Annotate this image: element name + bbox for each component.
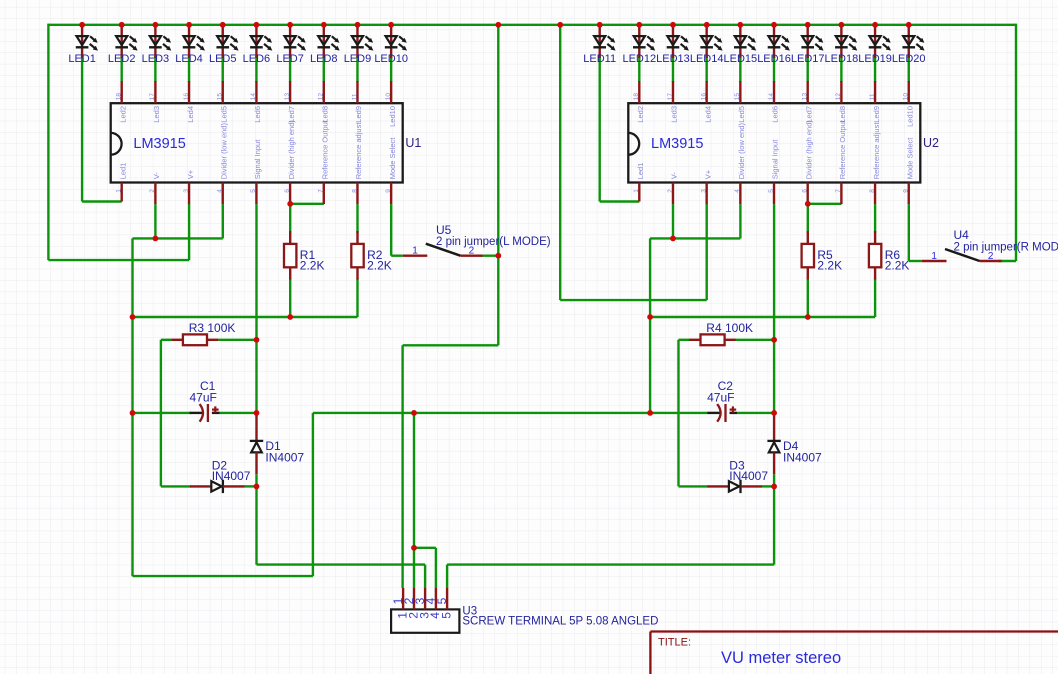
wire terminal pin3 drop: [424, 565, 426, 588]
svg-text:Led1: Led1: [636, 163, 645, 180]
svg-text:LED4: LED4: [175, 53, 203, 65]
svg-text:16: 16: [183, 93, 190, 101]
svg-text:Led10: Led10: [388, 106, 397, 127]
svg-text:LED6: LED6: [243, 53, 271, 65]
svg-text:LED17: LED17: [791, 53, 825, 65]
op-amp/IC U2 LM3915: [628, 81, 939, 204]
svg-text:5: 5: [250, 189, 257, 193]
wire terminal pin4 branch: [414, 547, 436, 549]
wire R5 leads: [807, 204, 809, 233]
svg-text:V+: V+: [703, 169, 712, 179]
LED LED7: [276, 25, 306, 65]
svg-text:12: 12: [835, 93, 842, 101]
wire R2 leads: [356, 204, 358, 233]
LED LED10: [374, 25, 408, 65]
diode D1 IN4007: [250, 414, 305, 474]
svg-text:Divider (high end): Divider (high end): [804, 120, 813, 180]
svg-text:LM3915: LM3915: [133, 136, 185, 152]
wire C2 row right lead: [737, 412, 774, 414]
svg-text:LED7: LED7: [276, 53, 304, 65]
svg-text:Led2: Led2: [636, 106, 645, 123]
svg-text:LED16: LED16: [757, 53, 791, 65]
svg-text:Led4: Led4: [186, 106, 195, 123]
svg-text:1: 1: [116, 189, 123, 193]
svg-text:U4: U4: [954, 228, 970, 242]
LED LED8: [310, 25, 340, 65]
capacitor C1 47uF: [190, 379, 220, 422]
svg-text:LED8: LED8: [310, 53, 338, 65]
capacitor C2 47uF: [707, 379, 737, 422]
diode D2 IN4007: [190, 459, 251, 494]
wire R1 leads: [289, 204, 291, 233]
resistor R2: [351, 231, 391, 280]
svg-text:VU meter stereo: VU meter stereo: [721, 649, 841, 667]
svg-text:IN4007: IN4007: [729, 469, 768, 483]
svg-text:LED20: LED20: [892, 53, 926, 65]
svg-text:LED9: LED9: [344, 53, 372, 65]
diode D4 IN4007: [767, 414, 822, 474]
op-amp/IC U1 LM3915: [111, 81, 422, 204]
svg-text:LED11: LED11: [583, 53, 616, 65]
svg-text:11: 11: [351, 93, 358, 100]
LED LED4: [175, 25, 205, 65]
svg-text:LED19: LED19: [858, 53, 892, 65]
svg-text:U1: U1: [405, 136, 421, 150]
svg-text:V-: V-: [670, 172, 679, 180]
svg-text:IN4007: IN4007: [212, 469, 251, 483]
svg-text:11: 11: [869, 93, 876, 100]
svg-text:Led5: Led5: [219, 106, 228, 123]
svg-text:R4 100K: R4 100K: [706, 321, 753, 335]
svg-text:Led4: Led4: [703, 106, 712, 123]
LED LED1: [68, 25, 98, 65]
resistor R3: [172, 321, 236, 345]
jumper U4: [922, 228, 1058, 262]
svg-text:Led3: Led3: [152, 106, 161, 123]
svg-text:10: 10: [385, 93, 392, 101]
svg-text:Led1: Led1: [118, 163, 127, 180]
svg-text:Divider (high end): Divider (high end): [287, 120, 296, 180]
LED LED6: [243, 25, 273, 65]
svg-text:14: 14: [250, 93, 257, 101]
LED LED16: [757, 25, 791, 65]
wire U1 signal input column: [255, 204, 257, 414]
svg-text:Signal Input: Signal Input: [253, 139, 262, 180]
svg-text:LED13: LED13: [656, 53, 690, 65]
svg-text:Led5: Led5: [737, 106, 746, 123]
LED LED14: [690, 25, 724, 65]
wire U2 mode select to U4: [908, 204, 910, 261]
wire D2 row: [161, 485, 191, 487]
wire U2 V- net: [672, 204, 674, 238]
LED LED18: [825, 25, 859, 65]
wire GND bus y413: [313, 412, 707, 414]
LED LED15: [724, 25, 758, 65]
svg-text:Signal Input: Signal Input: [771, 139, 780, 180]
svg-text:2 pin jumper(R MODE): 2 pin jumper(R MODE): [954, 241, 1058, 253]
svg-text:V-: V-: [152, 172, 161, 180]
resistor R5: [802, 231, 842, 280]
wire R4/D3 left drop: [677, 340, 679, 487]
svg-text:U5: U5: [436, 223, 452, 237]
svg-text:Reference Output: Reference Output: [320, 119, 329, 179]
svg-text:47uF: 47uF: [707, 391, 734, 405]
resistor R1: [284, 231, 324, 280]
svg-text:V+: V+: [186, 169, 195, 179]
svg-text:IN4007: IN4007: [265, 450, 304, 464]
resistor R4: [689, 321, 753, 345]
svg-text:TITLE:: TITLE:: [658, 636, 691, 648]
svg-text:Reference adjust: Reference adjust: [354, 122, 363, 180]
svg-text:SCREW TERMINAL 5P 5.08 ANGLED: SCREW TERMINAL 5P 5.08 ANGLED: [462, 616, 658, 628]
svg-text:8: 8: [351, 189, 358, 193]
svg-text:8: 8: [869, 189, 876, 193]
junction dots nets: [130, 201, 811, 551]
svg-text:5: 5: [435, 597, 449, 604]
svg-text:7: 7: [835, 189, 842, 193]
wire +V top rail: [48, 24, 1016, 26]
svg-text:2.2K: 2.2K: [300, 258, 325, 272]
LED LED3: [142, 25, 172, 65]
svg-text:Led9: Led9: [872, 106, 881, 123]
wire left V+ drop: [47, 24, 49, 261]
svg-text:7: 7: [318, 189, 325, 193]
wire LED11 cathode to U2 pin1: [599, 56, 601, 202]
svg-text:13: 13: [802, 93, 809, 101]
svg-text:Led6: Led6: [771, 106, 780, 123]
svg-text:2.2K: 2.2K: [367, 258, 392, 272]
svg-text:3: 3: [183, 189, 190, 193]
wire U2 signal input column: [773, 204, 775, 414]
svg-text:Mode Select: Mode Select: [905, 137, 914, 180]
wire R6 leads: [874, 204, 876, 233]
jumper U5: [403, 223, 551, 257]
svg-text:1: 1: [931, 251, 937, 262]
wire U2 pin6-pin7 link: [808, 203, 842, 205]
svg-text:LED18: LED18: [825, 53, 859, 65]
LED LED11: [583, 25, 616, 65]
svg-text:R3 100K: R3 100K: [189, 321, 236, 335]
LED LED17: [791, 25, 825, 65]
svg-text:18: 18: [116, 93, 123, 101]
svg-text:Led3: Led3: [670, 106, 679, 123]
wire U1 pin6-pin7 link: [290, 203, 324, 205]
svg-text:Led9: Led9: [354, 106, 363, 123]
svg-text:LED3: LED3: [142, 53, 170, 65]
svg-text:15: 15: [217, 93, 224, 101]
svg-text:Reference adjust: Reference adjust: [872, 122, 881, 180]
wire C1 row: [133, 412, 191, 414]
svg-text:4: 4: [734, 189, 741, 193]
svg-text:Led6: Led6: [253, 106, 262, 123]
LED LED2: [108, 25, 138, 65]
wire U5 pin2 to +V: [481, 254, 499, 256]
svg-text:47uF: 47uF: [190, 391, 217, 405]
svg-text:14: 14: [768, 93, 775, 101]
wire U1 mode select to U5: [390, 204, 392, 256]
wire U1 V- net: [154, 204, 156, 238]
svg-text:2: 2: [149, 189, 156, 193]
wire terminal pin2 column: [413, 413, 415, 588]
LED LED5: [209, 25, 239, 65]
wire to terminal pin1: [401, 345, 403, 588]
junction dots on +V rail: [79, 22, 911, 28]
svg-text:LED15: LED15: [724, 53, 758, 65]
svg-text:13: 13: [284, 93, 291, 101]
title block frame: [650, 632, 1058, 674]
svg-text:17: 17: [667, 93, 674, 101]
wire D3 row: [679, 485, 709, 487]
wire LED1 cathode to U1 pin1: [81, 56, 83, 202]
wire LED2-LED10 cathode columns: [120, 56, 122, 82]
svg-text:1: 1: [412, 246, 418, 257]
connector U3 screw terminal: [391, 588, 659, 633]
svg-text:Led2: Led2: [118, 106, 127, 123]
svg-text:6: 6: [284, 189, 291, 193]
svg-text:1: 1: [633, 189, 640, 193]
resistor R6: [869, 231, 909, 280]
svg-text:18: 18: [633, 93, 640, 101]
svg-text:LED5: LED5: [209, 53, 237, 65]
svg-text:2 pin jumper(L MODE): 2 pin jumper(L MODE): [436, 236, 551, 248]
svg-text:LED14: LED14: [690, 53, 724, 65]
svg-text:LM3915: LM3915: [651, 136, 703, 152]
LED LED13: [656, 25, 690, 65]
svg-text:15: 15: [734, 93, 741, 101]
svg-text:2.2K: 2.2K: [817, 258, 842, 272]
svg-text:3: 3: [700, 189, 707, 193]
svg-text:LED10: LED10: [374, 53, 408, 65]
svg-text:Reference Output: Reference Output: [838, 119, 847, 179]
svg-text:4: 4: [217, 189, 224, 193]
svg-text:9: 9: [903, 189, 910, 193]
svg-text:16: 16: [700, 93, 707, 101]
svg-text:10: 10: [903, 93, 910, 101]
wire left low-ref bus y317: [133, 316, 358, 318]
svg-text:9: 9: [385, 189, 392, 193]
svg-text:Divider (low end): Divider (low end): [737, 123, 746, 180]
svg-text:LED1: LED1: [68, 53, 96, 65]
svg-text:2: 2: [667, 189, 674, 193]
wire terminal pin5 to right audio: [446, 565, 448, 588]
svg-text:2.2K: 2.2K: [885, 258, 910, 272]
LED LED20: [892, 25, 926, 65]
wire LED12-LED20 cathode columns: [638, 56, 640, 82]
svg-text:Led10: Led10: [905, 106, 914, 127]
wire right low-ref bus y317: [650, 316, 875, 318]
LED LED9: [344, 25, 374, 65]
svg-text:IN4007: IN4007: [783, 450, 822, 464]
svg-text:Divider (low end): Divider (low end): [219, 123, 228, 180]
svg-text:5: 5: [439, 612, 453, 619]
svg-text:5: 5: [768, 189, 775, 193]
LED LED19: [858, 25, 892, 65]
svg-text:LED12: LED12: [622, 53, 656, 65]
diode D3 IN4007: [708, 459, 769, 494]
svg-text:6: 6: [802, 189, 809, 193]
svg-text:Mode Select: Mode Select: [388, 137, 397, 180]
wire right V+ drop: [559, 25, 561, 300]
LED LED12: [622, 25, 656, 65]
wire R3/D2 left drop: [160, 340, 162, 487]
svg-text:17: 17: [149, 93, 156, 101]
svg-text:U2: U2: [923, 136, 939, 150]
svg-text:LED2: LED2: [108, 53, 136, 65]
wire U4 pin2 to +V: [999, 260, 1017, 262]
svg-text:12: 12: [318, 93, 325, 101]
